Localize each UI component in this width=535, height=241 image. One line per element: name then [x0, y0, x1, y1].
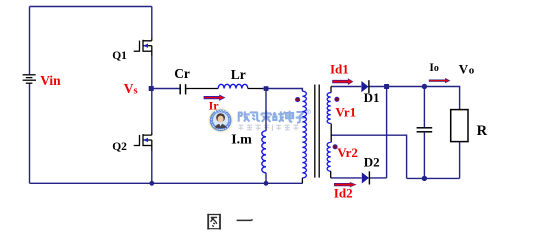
svg-text:Cr: Cr: [174, 66, 190, 81]
arrow Io: [429, 78, 451, 83]
wire R bottom lead: [459, 142, 461, 179]
wire D2 bottom from secondary: [331, 177, 362, 179]
svg-text:Q1: Q1: [112, 50, 127, 62]
wire cap upper lead: [423, 87, 425, 128]
wire Lm branch lower: [265, 173, 267, 184]
center tap lead: [330, 124, 332, 143]
secondary bottom winding: [327, 142, 331, 171]
transistor Q1: [134, 38, 152, 56]
wire secondary top to D1: [331, 86, 361, 88]
Q2 body arrow: [143, 138, 148, 142]
caption 一: [237, 219, 253, 222]
svg-text:Id2: Id2: [334, 186, 353, 201]
svg-text:Lr: Lr: [231, 67, 246, 82]
watermark badge: [208, 108, 233, 133]
wire Q-leg middle: [151, 56, 153, 133]
wire output top rail: [387, 87, 460, 110]
wire Q-leg upper: [151, 7, 153, 39]
wire left vertical bottom: [29, 84, 31, 184]
wire Cr to Lr (black): [186, 88, 262, 90]
svg-text:Vs: Vs: [124, 81, 138, 96]
battery Vin: [23, 75, 36, 83]
wires group: [30, 7, 460, 184]
node bottom rail at Lm: [264, 181, 269, 186]
watermark text 张飞实战电子: [238, 111, 306, 123]
caption 图: [207, 214, 220, 230]
wire Lm branch upper: [265, 89, 267, 131]
resistor R: [451, 110, 468, 142]
svg-text:Ir: Ir: [209, 99, 220, 113]
wire left vertical top: [29, 7, 31, 75]
svg-text:I.m: I.m: [231, 132, 252, 147]
arrow Ir: [204, 95, 226, 101]
secondary top lead: [330, 87, 332, 93]
wire cap lower lead: [423, 133, 425, 179]
wire Q-leg lower: [151, 150, 153, 183]
capacitor Cr: [180, 84, 185, 94]
arrow Id1: [332, 78, 353, 85]
diode D1: [361, 80, 369, 93]
svg-text:Vr2: Vr2: [337, 145, 358, 160]
transformer core: [315, 85, 319, 178]
svg-text:D2: D2: [364, 155, 380, 170]
node cap bottom: [422, 176, 427, 181]
watermark (R): [307, 110, 311, 114]
primary polarity dot: [295, 97, 300, 102]
node cap top: [422, 84, 427, 89]
svg-text:R: R: [477, 123, 488, 139]
inductor Lm: [262, 131, 266, 173]
wire bottom rail: [30, 182, 303, 184]
svg-text:Io: Io: [429, 62, 438, 74]
wire cathode junction vertical: [386, 87, 388, 178]
capacitor output: [417, 128, 433, 132]
wire D1 cathode to node: [369, 86, 387, 88]
secondary bottom dot: [333, 144, 338, 149]
inductor Lr: [218, 84, 248, 88]
wire top rail: [30, 6, 152, 8]
diode D2: [362, 171, 370, 184]
transistor Q2: [134, 133, 152, 151]
wire D2 cathode to corner: [369, 177, 386, 179]
node D1 cathode junction: [384, 84, 389, 89]
wire junction to primary top: [262, 89, 302, 92]
wire output bottom rail: [407, 177, 460, 179]
node bottom rail at Q leg: [149, 181, 154, 186]
secondary top dot: [334, 97, 339, 102]
watermark tagline: [238, 125, 298, 131]
arrow Id2: [334, 182, 357, 187]
node Vs: [149, 86, 154, 91]
primary bottom lead: [301, 178, 303, 183]
secondary bottom lead: [330, 171, 332, 178]
secondary top winding: [327, 93, 331, 124]
svg-text:Vo: Vo: [459, 61, 475, 76]
wire Vs to Cr: [152, 88, 180, 90]
Q1 body arrow: [143, 44, 148, 48]
svg-text:Vin: Vin: [40, 73, 61, 88]
transformer primary winding: [302, 91, 306, 178]
wire center tap horizontal: [331, 135, 406, 178]
svg-text:Id1: Id1: [330, 62, 349, 77]
svg-text:Vr1: Vr1: [335, 104, 356, 119]
svg-text:D1: D1: [364, 90, 380, 105]
node after Lr junction: [264, 86, 269, 91]
svg-text:Q2: Q2: [112, 141, 127, 153]
